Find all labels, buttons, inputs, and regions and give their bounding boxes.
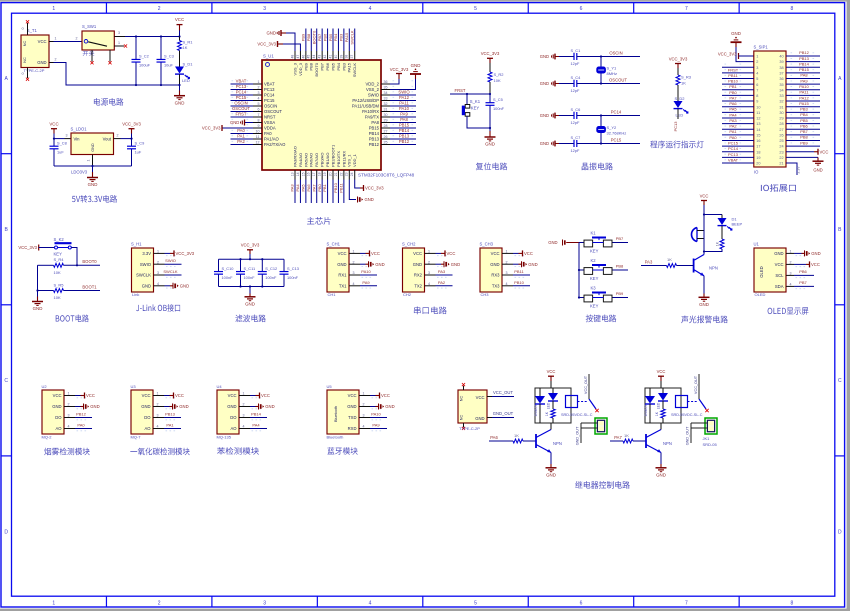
svg-text:PA9: PA9 bbox=[362, 280, 370, 285]
svg-text:SWCLK: SWCLK bbox=[163, 269, 178, 274]
svg-text:PA2/TX/AO: PA2/TX/AO bbox=[264, 142, 286, 147]
svg-text:VCC: VCC bbox=[476, 395, 485, 400]
svg-text:VCC_OUT: VCC_OUT bbox=[694, 375, 698, 394]
svg-text:GND: GND bbox=[142, 283, 151, 288]
svg-text:NPN: NPN bbox=[709, 265, 718, 270]
svg-text:GND: GND bbox=[52, 404, 61, 409]
svg-text:LED: LED bbox=[182, 78, 190, 83]
svg-text:S_C2: S_C2 bbox=[139, 54, 149, 59]
svg-text:PB3: PB3 bbox=[800, 107, 808, 112]
svg-text:PB5: PB5 bbox=[800, 118, 808, 123]
svg-text:16: 16 bbox=[756, 139, 760, 143]
svg-text:KEY: KEY bbox=[590, 276, 599, 281]
svg-text:S_C5: S_C5 bbox=[493, 97, 503, 102]
svg-text:1uF: 1uF bbox=[135, 149, 142, 154]
svg-text:CH1: CH1 bbox=[328, 292, 337, 297]
svg-text:NC: NC bbox=[23, 41, 27, 47]
svg-text:46: 46 bbox=[301, 55, 305, 59]
svg-text:PB9: PB9 bbox=[303, 62, 308, 70]
svg-text:NC: NC bbox=[460, 396, 464, 402]
svg-text:SRD-05VDC-SL-C: SRD-05VDC-SL-C bbox=[671, 413, 703, 417]
svg-text:S_C6: S_C6 bbox=[571, 107, 581, 112]
svg-text:PA3/RX/AO: PA3/RX/AO bbox=[292, 146, 297, 167]
svg-text:0: 0 bbox=[21, 28, 25, 30]
svg-text:SCL: SCL bbox=[775, 273, 784, 278]
svg-text:12: 12 bbox=[756, 117, 760, 121]
svg-text:PA15: PA15 bbox=[347, 62, 352, 72]
svg-text:S_C7: S_C7 bbox=[571, 135, 581, 140]
svg-text:28: 28 bbox=[779, 122, 783, 126]
svg-text:23: 23 bbox=[345, 172, 349, 176]
svg-text:GND: GND bbox=[175, 100, 185, 105]
svg-text:PC15: PC15 bbox=[611, 138, 622, 143]
svg-text:3: 3 bbox=[263, 600, 266, 606]
svg-text:PA15: PA15 bbox=[799, 101, 809, 106]
svg-text:PA10: PA10 bbox=[371, 412, 381, 417]
svg-text:S_C13: S_C13 bbox=[287, 266, 299, 271]
svg-text:17: 17 bbox=[312, 172, 316, 176]
svg-text:S_Y2: S_Y2 bbox=[607, 125, 618, 130]
svg-text:PC14: PC14 bbox=[264, 93, 275, 98]
svg-text:PB10: PB10 bbox=[333, 182, 338, 193]
svg-text:PB12: PB12 bbox=[369, 142, 380, 147]
svg-text:22: 22 bbox=[779, 156, 783, 160]
svg-text:23: 23 bbox=[779, 150, 783, 154]
svg-text:U1: U1 bbox=[754, 242, 760, 247]
svg-text:S_R5: S_R5 bbox=[54, 282, 65, 287]
svg-text:SWIO: SWIO bbox=[140, 262, 152, 267]
svg-text:GND: GND bbox=[490, 262, 499, 267]
svg-text:SRD-05VDC-SL-C: SRD-05VDC-SL-C bbox=[561, 413, 593, 417]
svg-text:PA1: PA1 bbox=[237, 133, 245, 138]
svg-text:PB14: PB14 bbox=[369, 131, 380, 136]
svg-text:VCC_3V3: VCC_3V3 bbox=[257, 42, 276, 47]
svg-text:PA9: PA9 bbox=[400, 111, 408, 116]
svg-text:PC13: PC13 bbox=[236, 84, 247, 89]
svg-text:GND: GND bbox=[540, 81, 549, 86]
svg-text:12pF: 12pF bbox=[571, 88, 580, 93]
svg-text:PA10: PA10 bbox=[399, 106, 410, 111]
svg-text:PC14: PC14 bbox=[236, 89, 247, 94]
svg-text:NPN: NPN bbox=[553, 441, 562, 446]
svg-text:PB9: PB9 bbox=[800, 140, 808, 145]
svg-text:0: 0 bbox=[21, 73, 25, 75]
svg-text:PB5: PB5 bbox=[328, 33, 333, 41]
svg-text:GND: GND bbox=[546, 472, 556, 477]
svg-text:VCC: VCC bbox=[53, 393, 62, 398]
svg-text:GND: GND bbox=[245, 301, 255, 306]
svg-text:PA10: PA10 bbox=[799, 84, 809, 89]
svg-text:PB10/TX: PB10/TX bbox=[336, 151, 341, 167]
svg-text:PA4/AO: PA4/AO bbox=[298, 153, 303, 167]
svg-text:VCC_3V3: VCC_3V3 bbox=[241, 243, 260, 248]
svg-text:18: 18 bbox=[756, 150, 760, 154]
svg-text:GND: GND bbox=[265, 404, 274, 409]
svg-text:GND: GND bbox=[230, 120, 239, 125]
svg-text:DO: DO bbox=[230, 415, 237, 420]
svg-text:PA11: PA11 bbox=[799, 90, 809, 95]
svg-text:39: 39 bbox=[339, 55, 343, 59]
svg-text:2: 2 bbox=[158, 6, 161, 12]
svg-text:GND: GND bbox=[375, 262, 384, 267]
svg-text:VCC_3V3: VCC_3V3 bbox=[202, 126, 221, 131]
svg-text:VCC_3V3: VCC_3V3 bbox=[122, 122, 141, 127]
svg-text:PA6: PA6 bbox=[306, 184, 311, 192]
svg-text:PA1/AO: PA1/AO bbox=[264, 137, 280, 142]
svg-text:Bluetooth: Bluetooth bbox=[334, 406, 338, 422]
svg-text:8: 8 bbox=[790, 600, 793, 606]
svg-text:14: 14 bbox=[756, 128, 760, 132]
svg-text:40: 40 bbox=[334, 55, 338, 59]
svg-text:Bluetooth: Bluetooth bbox=[327, 435, 344, 440]
svg-text:8: 8 bbox=[790, 6, 793, 12]
svg-text:12pF: 12pF bbox=[571, 148, 580, 153]
svg-text:D: D bbox=[838, 529, 842, 535]
svg-text:GND: GND bbox=[33, 306, 43, 311]
svg-text:PA12: PA12 bbox=[399, 95, 410, 100]
svg-text:GND: GND bbox=[347, 404, 356, 409]
svg-text:19: 19 bbox=[323, 172, 327, 176]
svg-text:40: 40 bbox=[779, 55, 783, 59]
svg-text:VCC: VCC bbox=[338, 251, 347, 256]
svg-text:2: 2 bbox=[756, 60, 758, 64]
svg-text:KEY: KEY bbox=[471, 105, 480, 110]
svg-text:PC13: PC13 bbox=[264, 87, 275, 92]
svg-text:GND: GND bbox=[485, 142, 495, 147]
svg-text:7: 7 bbox=[685, 600, 688, 606]
svg-text:GND: GND bbox=[180, 283, 189, 288]
svg-text:MQ-2: MQ-2 bbox=[42, 435, 53, 440]
svg-text:100nF: 100nF bbox=[287, 275, 299, 280]
svg-text:PA10: PA10 bbox=[361, 269, 371, 274]
svg-text:45: 45 bbox=[307, 55, 311, 59]
svg-text:IO: IO bbox=[754, 170, 759, 175]
svg-text:VCC: VCC bbox=[175, 17, 184, 22]
svg-text:10K: 10K bbox=[54, 270, 61, 275]
svg-text:1uF: 1uF bbox=[57, 149, 64, 154]
svg-text:13: 13 bbox=[290, 172, 294, 176]
svg-text:3: 3 bbox=[263, 6, 266, 12]
svg-text:PB11/RX: PB11/RX bbox=[341, 151, 346, 167]
svg-text:VCC_OUT: VCC_OUT bbox=[584, 375, 588, 394]
svg-text:10: 10 bbox=[756, 105, 760, 109]
svg-text:SWIO: SWIO bbox=[368, 93, 380, 98]
svg-text:C: C bbox=[838, 378, 842, 384]
svg-text:1K: 1K bbox=[545, 411, 549, 416]
svg-text:PB10: PB10 bbox=[514, 280, 525, 285]
svg-text:LED: LED bbox=[676, 113, 684, 118]
svg-text:4: 4 bbox=[756, 71, 758, 75]
svg-text:PB13: PB13 bbox=[369, 137, 380, 142]
svg-text:PB14: PB14 bbox=[399, 128, 410, 133]
svg-text:12pF: 12pF bbox=[571, 120, 580, 125]
svg-text:4: 4 bbox=[369, 600, 372, 606]
svg-text:17: 17 bbox=[756, 145, 760, 149]
svg-text:S_R3: S_R3 bbox=[681, 75, 692, 80]
svg-text:35: 35 bbox=[779, 83, 783, 87]
svg-text:10uF: 10uF bbox=[164, 63, 173, 68]
svg-text:PB9: PB9 bbox=[301, 33, 306, 41]
svg-text:PA5: PA5 bbox=[729, 107, 737, 112]
svg-text:VDD_1: VDD_1 bbox=[352, 153, 357, 167]
svg-text:VCC: VCC bbox=[811, 262, 820, 267]
svg-text:13: 13 bbox=[756, 122, 760, 126]
svg-text:PB7: PB7 bbox=[800, 129, 808, 134]
svg-text:VSS_3: VSS_3 bbox=[292, 62, 297, 75]
svg-text:GND: GND bbox=[699, 302, 709, 307]
svg-text:VBAT: VBAT bbox=[236, 78, 247, 83]
svg-text:BEEP: BEEP bbox=[732, 222, 743, 227]
svg-text:6: 6 bbox=[580, 6, 583, 12]
svg-text:7: 7 bbox=[756, 88, 758, 92]
svg-text:GND: GND bbox=[475, 416, 484, 421]
svg-text:DO: DO bbox=[144, 415, 151, 420]
svg-text:1: 1 bbox=[756, 55, 758, 59]
svg-text:PA6: PA6 bbox=[729, 101, 737, 106]
svg-text:GND_OUT: GND_OUT bbox=[686, 426, 690, 445]
svg-text:S_R2: S_R2 bbox=[494, 72, 505, 77]
svg-text:S_LDO1: S_LDO1 bbox=[71, 126, 88, 131]
svg-text:3.3V: 3.3V bbox=[797, 166, 801, 174]
svg-text:PA7: PA7 bbox=[311, 184, 316, 192]
svg-text:VCC: VCC bbox=[371, 251, 380, 256]
svg-text:PA9: PA9 bbox=[372, 423, 380, 428]
svg-text:37: 37 bbox=[350, 55, 354, 59]
svg-text:S_C4: S_C4 bbox=[571, 75, 582, 80]
svg-text:STM32F103C8T6_LQFP48: STM32F103C8T6_LQFP48 bbox=[358, 173, 415, 178]
svg-text:PB0: PB0 bbox=[729, 90, 737, 95]
svg-text:SDA: SDA bbox=[775, 284, 784, 289]
svg-text:NRST: NRST bbox=[264, 115, 276, 120]
svg-text:PA1: PA1 bbox=[729, 129, 737, 134]
svg-text:OSCOUT: OSCOUT bbox=[609, 78, 627, 83]
svg-text:32: 32 bbox=[779, 100, 783, 104]
svg-text:2: 2 bbox=[76, 37, 78, 41]
svg-text:PA15: PA15 bbox=[344, 32, 349, 42]
svg-text:PC15: PC15 bbox=[728, 141, 739, 146]
svg-text:3: 3 bbox=[756, 66, 758, 70]
svg-text:27: 27 bbox=[779, 128, 783, 132]
svg-text:10K: 10K bbox=[54, 295, 61, 300]
svg-text:LED: LED bbox=[656, 402, 660, 409]
svg-text:100nF: 100nF bbox=[222, 275, 234, 280]
svg-text:Vout: Vout bbox=[103, 137, 112, 142]
svg-text:30: 30 bbox=[779, 111, 783, 115]
svg-text:PA8: PA8 bbox=[371, 120, 379, 125]
svg-text:VCC_3V3: VCC_3V3 bbox=[18, 245, 37, 250]
svg-text:PB11: PB11 bbox=[728, 73, 738, 78]
svg-text:VCC: VCC bbox=[413, 251, 422, 256]
svg-text:2: 2 bbox=[158, 600, 161, 606]
svg-text:GND: GND bbox=[90, 404, 99, 409]
svg-text:15: 15 bbox=[301, 172, 305, 176]
svg-text:BOOT0: BOOT0 bbox=[314, 62, 319, 76]
svg-text:CH3: CH3 bbox=[481, 292, 490, 297]
svg-text:PA11/USB/DM: PA11/USB/DM bbox=[352, 104, 380, 109]
svg-text:PB6: PB6 bbox=[325, 62, 330, 70]
svg-text:PB1/AO: PB1/AO bbox=[325, 153, 330, 167]
svg-text:PA0: PA0 bbox=[264, 131, 272, 136]
svg-text:PB15: PB15 bbox=[399, 122, 410, 127]
svg-text:OSCOUT: OSCOUT bbox=[264, 109, 282, 114]
svg-text:47: 47 bbox=[296, 55, 300, 59]
svg-text:2: 2 bbox=[117, 134, 119, 138]
svg-text:SWCLK: SWCLK bbox=[352, 63, 357, 78]
svg-text:PC15: PC15 bbox=[264, 98, 275, 103]
svg-text:VSS_2: VSS_2 bbox=[366, 87, 380, 92]
svg-text:RX2: RX2 bbox=[414, 273, 423, 278]
svg-text:PA0: PA0 bbox=[729, 135, 737, 140]
svg-text:PA9/TX: PA9/TX bbox=[365, 115, 379, 120]
svg-text:PB6: PB6 bbox=[800, 123, 808, 128]
svg-text:PB8: PB8 bbox=[306, 33, 311, 41]
svg-text:PA1: PA1 bbox=[166, 423, 174, 428]
svg-text:GND: GND bbox=[548, 240, 557, 245]
svg-text:PA9: PA9 bbox=[800, 78, 808, 83]
svg-text:OLED: OLED bbox=[759, 266, 764, 277]
svg-text:38: 38 bbox=[345, 55, 349, 59]
svg-text:PB9: PB9 bbox=[616, 291, 624, 296]
svg-text:TX1: TX1 bbox=[339, 283, 347, 288]
svg-text:RX1: RX1 bbox=[338, 273, 347, 278]
svg-text:36: 36 bbox=[779, 77, 783, 81]
svg-text:PA8: PA8 bbox=[400, 117, 408, 122]
svg-text:S_D1: S_D1 bbox=[183, 62, 194, 67]
svg-text:S_D2: S_D2 bbox=[675, 96, 686, 101]
svg-text:K2: K2 bbox=[591, 258, 597, 263]
svg-text:GND: GND bbox=[774, 251, 783, 256]
svg-text:GND: GND bbox=[540, 113, 549, 118]
svg-text:CH2: CH2 bbox=[403, 292, 412, 297]
svg-text:PA12: PA12 bbox=[799, 95, 809, 100]
svg-text:PB14: PB14 bbox=[799, 61, 810, 66]
svg-text:44: 44 bbox=[312, 55, 316, 59]
svg-text:1K: 1K bbox=[624, 433, 629, 438]
svg-text:AO: AO bbox=[144, 426, 151, 431]
svg-text:SWIO: SWIO bbox=[165, 258, 176, 263]
svg-text:BOOT0: BOOT0 bbox=[312, 30, 317, 44]
svg-text:2: 2 bbox=[55, 58, 57, 62]
svg-text:1K: 1K bbox=[681, 81, 686, 86]
svg-text:PB3: PB3 bbox=[341, 62, 346, 70]
svg-text:VCC_3V3: VCC_3V3 bbox=[669, 56, 688, 61]
svg-text:PC13: PC13 bbox=[728, 152, 739, 157]
svg-text:NPN: NPN bbox=[663, 441, 672, 446]
svg-text:VCC: VCC bbox=[38, 39, 47, 44]
svg-text:GND: GND bbox=[365, 197, 374, 202]
svg-text:Vin: Vin bbox=[74, 137, 81, 142]
svg-text:GND: GND bbox=[88, 182, 98, 187]
svg-text:RXD: RXD bbox=[348, 426, 357, 431]
svg-text:PA7: PA7 bbox=[614, 435, 622, 440]
svg-text:VCC: VCC bbox=[547, 369, 556, 374]
svg-text:RX3: RX3 bbox=[491, 273, 500, 278]
svg-text:PB4: PB4 bbox=[336, 62, 341, 70]
svg-text:32.768KHz: 32.768KHz bbox=[607, 131, 627, 136]
svg-text:D: D bbox=[4, 529, 8, 535]
svg-text:S_K1: S_K1 bbox=[470, 99, 481, 104]
svg-text:20: 20 bbox=[756, 162, 760, 166]
svg-text:NC: NC bbox=[23, 57, 27, 63]
svg-text:S_CH2: S_CH2 bbox=[402, 242, 416, 247]
svg-text:PA8: PA8 bbox=[800, 73, 808, 78]
svg-text:S_CH1: S_CH1 bbox=[327, 242, 341, 247]
svg-text:VCC: VCC bbox=[700, 193, 709, 198]
svg-text:9: 9 bbox=[756, 100, 758, 104]
svg-text:S_C1: S_C1 bbox=[571, 48, 581, 53]
svg-text:7: 7 bbox=[685, 6, 688, 12]
svg-text:1N4007: 1N4007 bbox=[644, 404, 648, 416]
svg-text:U4: U4 bbox=[217, 384, 223, 389]
svg-text:OLED: OLED bbox=[755, 292, 766, 297]
svg-text:VCC: VCC bbox=[447, 251, 456, 256]
svg-text:SRD-05: SRD-05 bbox=[703, 442, 718, 447]
svg-text:GND: GND bbox=[266, 31, 276, 36]
svg-text:GND_OUT: GND_OUT bbox=[493, 411, 514, 416]
svg-text:PC15: PC15 bbox=[236, 95, 247, 100]
svg-text:PC13: PC13 bbox=[673, 121, 678, 132]
svg-text:31: 31 bbox=[779, 105, 783, 109]
svg-text:S_R4: S_R4 bbox=[54, 257, 65, 262]
svg-text:PB7: PB7 bbox=[317, 33, 322, 41]
svg-text:PB4: PB4 bbox=[800, 112, 808, 117]
svg-text:GND: GND bbox=[91, 143, 95, 152]
svg-text:GND: GND bbox=[37, 60, 46, 65]
svg-text:SWCLK: SWCLK bbox=[350, 30, 355, 45]
svg-text:VCC: VCC bbox=[381, 393, 390, 398]
svg-text:42: 42 bbox=[323, 55, 327, 59]
svg-text:8MHz: 8MHz bbox=[607, 71, 617, 76]
svg-text:100nF: 100nF bbox=[244, 275, 256, 280]
svg-text:GND: GND bbox=[656, 472, 666, 477]
svg-text:PB15: PB15 bbox=[799, 67, 810, 72]
svg-text:16: 16 bbox=[307, 172, 311, 176]
svg-text:MQ-135: MQ-135 bbox=[217, 435, 232, 440]
svg-text:100nF: 100nF bbox=[265, 275, 277, 280]
svg-text:3.3V: 3.3V bbox=[142, 251, 151, 256]
svg-text:GND: GND bbox=[413, 262, 422, 267]
svg-text:PB7: PB7 bbox=[320, 62, 325, 70]
svg-text:PB3: PB3 bbox=[339, 33, 344, 41]
svg-text:PB14: PB14 bbox=[251, 412, 262, 417]
svg-text:OSCIN: OSCIN bbox=[609, 51, 622, 56]
svg-text:10K: 10K bbox=[494, 78, 501, 83]
svg-text:OSCIN: OSCIN bbox=[234, 100, 247, 105]
svg-text:VCC_3V3: VCC_3V3 bbox=[390, 67, 409, 72]
svg-text:VCC_3V3: VCC_3V3 bbox=[365, 186, 384, 191]
svg-text:S_C12: S_C12 bbox=[265, 266, 277, 271]
svg-text:PB13: PB13 bbox=[399, 133, 410, 138]
svg-text:1: 1 bbox=[87, 160, 91, 162]
svg-text:VCC: VCC bbox=[261, 393, 270, 398]
svg-text:AO: AO bbox=[55, 426, 62, 431]
svg-text:GND: GND bbox=[337, 262, 346, 267]
svg-text:AO: AO bbox=[230, 426, 237, 431]
svg-text:PA2: PA2 bbox=[438, 280, 446, 285]
svg-text:5: 5 bbox=[474, 600, 477, 606]
svg-text:PA0: PA0 bbox=[77, 423, 85, 428]
svg-text:PC14: PC14 bbox=[728, 146, 739, 151]
svg-text:22: 22 bbox=[339, 172, 343, 176]
svg-text:20: 20 bbox=[328, 172, 332, 176]
svg-text:LDO3V3: LDO3V3 bbox=[71, 170, 88, 175]
svg-text:21: 21 bbox=[779, 162, 783, 166]
svg-text:37: 37 bbox=[779, 71, 783, 75]
svg-text:PB1: PB1 bbox=[729, 84, 737, 89]
svg-text:SWIO: SWIO bbox=[398, 89, 410, 94]
svg-text:6: 6 bbox=[756, 83, 758, 87]
svg-text:PA4: PA4 bbox=[295, 184, 300, 192]
